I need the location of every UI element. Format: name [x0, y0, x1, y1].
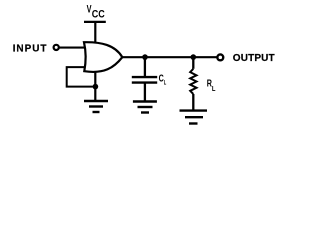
wire node to capacitor: [144, 57, 146, 76]
wire node to resistor: [192, 57, 194, 69]
ground below CL: [133, 102, 157, 113]
wire gate ground stem: [94, 68, 96, 100]
label RL: [207, 79, 216, 93]
svg-text:L: L: [212, 84, 216, 93]
output terminal: [217, 54, 223, 60]
capacitor CL: [132, 77, 157, 82]
node junction at CL: [142, 54, 148, 60]
input terminal: [54, 45, 59, 50]
wire Vcc stem to gate top: [94, 22, 96, 44]
node junction at RL: [191, 54, 197, 60]
label OUTPUT: [233, 53, 275, 64]
op-amp gate U1 (OR gate): [84, 42, 122, 72]
label CL: [159, 73, 167, 86]
wire gate output to output terminal: [121, 56, 217, 58]
node junction at gate ground: [93, 84, 99, 90]
wire capacitor to ground: [144, 83, 146, 101]
ground below RL: [180, 111, 208, 124]
svg-text:L: L: [164, 79, 167, 86]
wire gate lower input loop: [67, 67, 96, 87]
resistor RL: [190, 69, 196, 94]
svg-text:CC: CC: [92, 8, 105, 20]
svg-text:INPUT: INPUT: [13, 44, 47, 55]
Vcc rail bar: [84, 21, 106, 23]
wire resistor to ground: [192, 94, 194, 110]
svg-text:OUTPUT: OUTPUT: [233, 53, 275, 64]
wire input to gate: [59, 47, 86, 49]
label VCC: [87, 3, 105, 20]
label INPUT: [13, 44, 47, 55]
ground below gate: [84, 101, 108, 112]
